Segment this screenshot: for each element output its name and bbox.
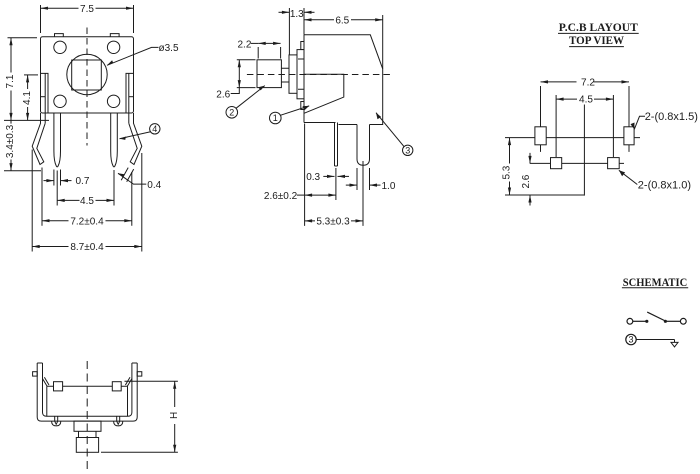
ground wire [636,339,674,341]
corner hole bottom-left [54,95,66,107]
pad axis right [628,86,630,152]
switch body side left [46,386,48,416]
dim 2.6 +-0.2 [297,124,336,226]
switch base line [47,385,128,387]
switch terminal circle right [680,318,686,324]
button square [72,60,102,90]
knee tab left [33,372,38,376]
svg-text:1: 1 [273,113,278,123]
body edge tab bottom [301,102,304,110]
svg-text:1.0: 1.0 [382,181,396,192]
dim 8.7 +-0.4 [32,150,142,252]
leg tip left [52,421,61,426]
dim 6.5 [304,14,383,69]
brace diagonal right [125,377,131,386]
dim dia 3.5 leader [107,47,159,65]
svg-text:2: 2 [229,108,234,118]
svg-text:H: H [169,412,180,419]
dim 4.1 [22,75,38,121]
svg-text:2.6: 2.6 [216,89,230,100]
straight leg left [54,113,61,167]
corner hole top-left [54,41,66,53]
flange square left [54,382,63,391]
svg-text:7.5: 7.5 [80,4,94,15]
svg-text:3: 3 [405,146,410,156]
svg-text:5.3: 5.3 [501,165,512,179]
switch contact dot right [664,320,667,323]
plunger neck bottom view [79,431,97,437]
front view switch body [41,37,134,113]
label 2-(0.8x1.0) [619,170,637,184]
svg-text:4: 4 [152,124,157,134]
svg-text:P.C.B LAYOUT: P.C.B LAYOUT [559,20,638,34]
dim 7.2 pcb [541,76,630,87]
pad slot right [624,127,634,145]
switch terminal circle left [627,318,633,324]
pad axis left [540,86,542,152]
dim 5.3 pcb [501,138,512,195]
flange square right [112,382,121,391]
dim 2.6 pcb [529,153,531,206]
svg-text:7.2: 7.2 [581,78,595,89]
break slash marks [121,168,134,182]
dim 0.4 leader [118,173,146,184]
callout 4 [120,124,161,140]
pcb vertical axis [583,101,585,196]
svg-text:1.3: 1.3 [290,9,304,20]
straight leg right [111,113,118,167]
dim 3.4 +-0.3 [4,120,41,170]
bracket outer outline [37,363,137,421]
pad slot left [535,127,546,145]
post caps [37,362,137,364]
body edge tab top [301,42,304,50]
dim 0.3 [323,175,349,177]
dim 7.1 [4,38,49,121]
knee tab right [137,372,142,376]
dim 7.5 [41,3,134,34]
callout 2 [226,86,265,119]
pcb bottom reference line [505,194,584,196]
svg-text:2-(0.8x1.5): 2-(0.8x1.5) [645,111,698,123]
ground symbol [671,340,678,347]
switch body side right [127,386,129,416]
case terminal circled 3 [626,334,636,344]
dim 1.3 [279,8,315,55]
svg-text:0.7: 0.7 [76,176,90,187]
plunger plate bottom view [74,421,101,431]
bracket inner outline [43,363,132,416]
plunger plate inner [289,55,297,93]
svg-text:TOP VIEW: TOP VIEW [569,33,624,47]
pcb horizontal axis upper [505,137,640,139]
left flange [41,73,49,113]
pcb layout title [558,20,639,47]
svg-text:7.1: 7.1 [5,74,16,88]
dim 7.2 +-0.4 [42,168,132,226]
horizontal centerline view2 [247,74,392,76]
bent leg left outer [32,113,45,165]
svg-text:3.4±0.3: 3.4±0.3 [5,124,16,158]
button circle [67,54,107,94]
centerline view5 [86,361,88,471]
switch lever [647,312,665,321]
button rect [257,60,281,88]
svg-text:6.5: 6.5 [335,15,349,26]
plunger neck [281,68,289,82]
top tab right [110,34,119,37]
dim 1.0 [346,168,381,190]
vertical centerline view1 [86,28,88,146]
pad square right [608,158,620,169]
corner hole top-right [107,41,119,53]
svg-text:ø3.5: ø3.5 [159,43,179,54]
svg-text:3: 3 [628,335,633,345]
schematic title [622,275,688,289]
svg-text:5.3±0.3: 5.3±0.3 [316,217,350,228]
svg-text:4.5: 4.5 [80,196,94,207]
svg-text:SCHEMATIC: SCHEMATIC [623,275,688,289]
kink leg thin [335,123,338,167]
bent leg right outer [129,113,142,165]
dim H [101,381,180,452]
svg-text:2-(0.8x1.0): 2-(0.8x1.0) [638,179,691,191]
plunger plate outer [297,50,304,99]
top tab left [55,34,64,37]
dim 4.5 pcb [556,94,613,158]
svg-text:7.2±0.4: 7.2±0.4 [70,216,104,227]
dim 5.3 +-0.3 [305,161,363,226]
label 2-(0.8x1.5) [634,116,645,129]
switch contact dot left [645,320,648,323]
svg-text:2.6±0.2: 2.6±0.2 [264,191,298,202]
svg-text:0.3: 0.3 [306,172,320,183]
corner hole bottom-right [107,95,119,107]
callout 1 [270,106,310,124]
svg-text:2.6: 2.6 [521,174,532,188]
svg-text:0.4: 0.4 [147,180,161,191]
dim 4.5 [57,170,114,206]
leg tip right [114,421,123,426]
button bottom view [76,438,98,453]
pcb horizontal axis lower [530,162,624,164]
round leg [357,125,370,166]
svg-text:8.7±0.4: 8.7±0.4 [70,242,104,253]
internal contact [304,74,344,113]
right flange [126,73,134,113]
dim 0.7 [44,170,72,186]
side view body [304,35,383,125]
svg-text:2.2: 2.2 [238,39,252,50]
switch lead right [667,320,680,322]
brace diagonal left [43,377,50,386]
svg-text:4.1: 4.1 [22,91,33,105]
pad square left [551,158,562,169]
dim 2.2 [251,43,281,58]
callout 3 [376,113,413,156]
svg-text:4.5: 4.5 [579,95,593,106]
dim 2.6 left [231,60,256,94]
switch lead left [633,320,646,322]
